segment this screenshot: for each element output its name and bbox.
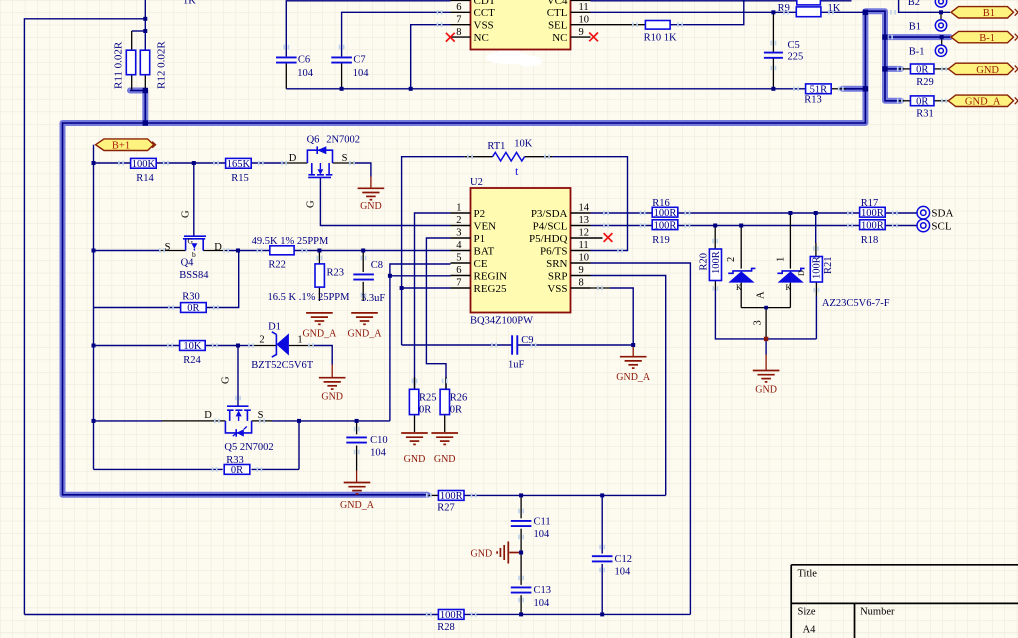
port B-1 — [951, 31, 1014, 42]
svg-text:R10 1K: R10 1K — [644, 33, 677, 44]
svg-text:0R: 0R — [419, 405, 431, 416]
svg-text:C7: C7 — [353, 55, 365, 66]
resistor R31 — [910, 96, 934, 106]
svg-text:RT1: RT1 — [487, 141, 505, 152]
wire R11 top elbow — [132, 30, 146, 32]
svg-text:P6/TS: P6/TS — [540, 245, 568, 257]
svg-text:7: 7 — [456, 14, 461, 25]
ground GND at zeners — [753, 371, 780, 382]
transistor Q5 2N7002 — [227, 405, 249, 407]
svg-text:10: 10 — [579, 14, 590, 25]
wire R20 top lead — [714, 226, 716, 250]
svg-text:100K: 100K — [132, 159, 156, 170]
resistor R28 — [438, 610, 464, 620]
svg-text:S: S — [165, 242, 171, 253]
capacitor C10 — [346, 437, 367, 442]
svg-text:7: 7 — [456, 278, 461, 289]
resistor R10 — [645, 21, 670, 30]
svg-text:165K: 165K — [227, 159, 251, 170]
wire row163 B+1 to R14 R15 Q6 — [94, 162, 131, 164]
svg-text:0R: 0R — [450, 405, 462, 416]
pad SDA — [917, 206, 930, 219]
wire zener common to GND — [765, 339, 767, 355]
resistor R23 — [315, 264, 324, 287]
wire row250 R22 to U2 BAT — [294, 250, 450, 252]
svg-text:C12: C12 — [615, 554, 633, 565]
svg-text:GND: GND — [321, 392, 343, 403]
ground GND at D1 — [319, 378, 346, 389]
wire Q5 gate — [237, 346, 239, 407]
resistor R11 — [126, 50, 135, 74]
svg-text:CCT: CCT — [474, 7, 496, 19]
resistor R22 — [270, 246, 294, 255]
svg-text:2: 2 — [726, 257, 737, 262]
resistor R33 — [224, 465, 250, 475]
ground GND at R25 — [401, 433, 428, 444]
svg-text:R27: R27 — [437, 503, 455, 514]
svg-text:AZ23C5V6-7-F: AZ23C5V6-7-F — [822, 298, 890, 309]
wire B+1 port drop — [93, 145, 95, 163]
wire R21 bottom lead — [815, 282, 817, 296]
wire R26 top black lead — [445, 377, 447, 389]
svg-text:B-1: B-1 — [909, 47, 925, 58]
wire thick B+ bus halo — [130, 91, 145, 124]
svg-text:D: D — [204, 410, 212, 421]
wire row250 S-Q4 — [94, 250, 161, 252]
svg-text:R14: R14 — [136, 173, 154, 184]
svg-text:R22: R22 — [268, 259, 286, 270]
diode D2 zener — [777, 268, 804, 273]
svg-text:R20: R20 — [698, 253, 709, 271]
resistor R18 — [860, 220, 886, 230]
resistor R16 — [652, 207, 678, 217]
wire R9 right to bus — [821, 11, 866, 13]
capacitor C11 — [511, 521, 532, 526]
svg-text:9: 9 — [579, 27, 584, 38]
wire SDA row — [591, 212, 653, 214]
svg-text:R12 0.02R: R12 0.02R — [156, 41, 168, 89]
wire CTL row to R9 — [591, 11, 797, 13]
svg-text:C5: C5 — [788, 40, 800, 51]
wire net88 long horizontal — [286, 88, 806, 90]
op-amp U2 BQ34Z100PW — [471, 188, 571, 313]
wire U2 P1 to R26 — [426, 238, 450, 389]
capacitor C5 — [764, 53, 783, 58]
title block — [791, 565, 1018, 638]
pad SCL — [917, 219, 930, 232]
ground GND at R26 — [431, 433, 458, 444]
svg-text:K: K — [786, 283, 792, 292]
wire R33 row — [94, 468, 223, 470]
svg-text:9: 9 — [579, 265, 584, 276]
svg-text:Title: Title — [798, 569, 818, 580]
svg-text:1uF: 1uF — [508, 360, 525, 371]
ground GND_A at C9 node — [620, 357, 647, 368]
svg-text:CE: CE — [474, 258, 488, 270]
svg-text:0R: 0R — [231, 465, 243, 476]
resistor R25 — [409, 389, 418, 414]
svg-text:P5/HDQ: P5/HDQ — [529, 233, 568, 245]
resistor R21 — [810, 257, 822, 283]
svg-text:P1: P1 — [474, 233, 486, 245]
wire R26 bottom lead — [444, 415, 446, 432]
svg-text:NC: NC — [552, 32, 567, 44]
svg-text:5: 5 — [456, 253, 461, 264]
wire RT1 right to U2 TS — [552, 157, 627, 251]
wire Q6 gate to U2 VEN — [320, 177, 450, 225]
junction dot zener anode — [764, 306, 768, 310]
connection markers — [118, 161, 124, 166]
transistor Q6 2N7002 — [307, 150, 332, 163]
svg-text:G: G — [188, 237, 194, 246]
svg-text:B-1: B-1 — [979, 33, 995, 44]
wire U2 CE elbow — [390, 264, 451, 421]
svg-text:1K: 1K — [183, 0, 196, 7]
svg-text:R24: R24 — [183, 355, 201, 366]
svg-text:C11: C11 — [534, 517, 551, 528]
white blob artifact — [486, 51, 530, 64]
svg-text:2: 2 — [456, 215, 461, 226]
junction dot GND maroon — [764, 337, 768, 341]
svg-text:SRN: SRN — [546, 258, 567, 270]
svg-text:G: G — [306, 200, 317, 208]
svg-text:R28: R28 — [437, 622, 455, 633]
transistor Q4 BSS84 — [184, 235, 206, 237]
svg-text:B+1: B+1 — [112, 140, 130, 151]
wire B1 net — [899, 0, 950, 12]
svg-text:3: 3 — [456, 228, 461, 239]
svg-text:104: 104 — [353, 68, 370, 79]
svg-text:C13: C13 — [534, 585, 552, 596]
wire R24 row — [94, 345, 180, 347]
svg-text:3.3uF: 3.3uF — [361, 293, 385, 304]
wire Q6 source to GND — [333, 162, 356, 164]
svg-text:GND_A: GND_A — [616, 372, 651, 383]
wire Q4 gate vertical — [193, 163, 195, 236]
svg-text:G: G — [180, 210, 191, 218]
svg-text:A: A — [756, 291, 767, 299]
svg-text:104: 104 — [534, 598, 551, 609]
wire C7 bottom lead — [341, 63, 343, 89]
wire R11 R12 top vertical — [144, 0, 146, 50]
capacitor C6 — [276, 57, 297, 62]
svg-text:GND: GND — [755, 385, 777, 396]
wire C11-C13 chain — [520, 495, 522, 518]
svg-text:104: 104 — [370, 448, 387, 459]
wire CCT row / C7 top — [342, 12, 451, 56]
svg-text:P3/SDA: P3/SDA — [531, 208, 568, 220]
svg-text:10K: 10K — [514, 139, 533, 150]
wire left rail vertical — [93, 163, 95, 469]
wire C6 bottom lead — [285, 63, 287, 89]
svg-text:Q5 2N7002: Q5 2N7002 — [224, 442, 273, 453]
wire R25 top black lead — [414, 377, 416, 389]
wire SRP to R27 row — [591, 276, 666, 496]
wire C10 leads — [356, 421, 358, 434]
wire VC4 row to R8 — [591, 0, 797, 2]
capacitor C8 — [353, 274, 374, 279]
wire R20 bottom to A-node rail — [714, 281, 716, 290]
svg-text:16.5 K .1% 25PPM: 16.5 K .1% 25PPM — [268, 292, 351, 303]
ground GND_A at C10 — [344, 483, 371, 494]
pad B2 — [935, 0, 946, 7]
svg-text:Size: Size — [798, 607, 816, 618]
svg-text:10K: 10K — [183, 341, 202, 352]
wire B-1 pad stub — [941, 37, 943, 45]
svg-text:R15: R15 — [231, 173, 249, 184]
svg-text:1: 1 — [456, 203, 461, 214]
wire GND_A stub at C9 node — [632, 345, 634, 357]
resistor R9 — [796, 7, 821, 17]
wire C5 bottom lead — [772, 58, 774, 88]
capacitor C12 — [592, 556, 613, 561]
wire D1 right to GND — [289, 345, 313, 347]
svg-text:1: 1 — [775, 257, 786, 262]
op-amp U1 charger IC (partial) — [471, 0, 571, 50]
wire R12 bottom lead — [144, 75, 146, 91]
wire REG25 row — [402, 287, 451, 289]
wire CDT row / C6 top — [286, 1, 450, 57]
wire SEL row to R10 — [591, 24, 646, 26]
svg-text:11: 11 — [579, 2, 589, 13]
svg-text:8: 8 — [579, 278, 584, 289]
svg-text:SEL: SEL — [548, 20, 568, 32]
capacitor C9 — [512, 335, 517, 354]
svg-text:K: K — [736, 283, 742, 292]
wire left outer vertical — [23, 18, 25, 614]
svg-text:C6: C6 — [298, 55, 310, 66]
partial text top edge — [183, 0, 196, 7]
thermistor RT1 — [493, 152, 525, 161]
svg-text:0R: 0R — [916, 65, 928, 76]
svg-text:SCL: SCL — [931, 220, 951, 232]
pad B1 — [935, 20, 946, 31]
svg-text:A4: A4 — [803, 625, 817, 636]
port GND_A — [948, 95, 1013, 106]
svg-text:BSS84: BSS84 — [179, 270, 209, 281]
junction dots on bus — [143, 88, 148, 93]
svg-text:GND: GND — [434, 454, 456, 465]
svg-text:B1: B1 — [983, 8, 995, 19]
wire R13 right to bus — [831, 88, 846, 90]
svg-text:R33: R33 — [226, 455, 244, 466]
wire RT1 leads — [465, 156, 493, 158]
svg-text:100R: 100R — [440, 491, 463, 502]
wire bottom row to R28 — [24, 614, 438, 616]
svg-text:SDA: SDA — [931, 208, 953, 220]
svg-text:2N7002: 2N7002 — [326, 135, 360, 146]
svg-text:104: 104 — [534, 529, 551, 540]
no-connect X U2 pin12 — [604, 233, 613, 242]
ground GND_A at C8 — [351, 313, 378, 324]
svg-text:6: 6 — [456, 265, 461, 276]
resistor R8 (partial top) — [797, 0, 821, 5]
resistor R24 — [180, 341, 206, 351]
wire R8 right to corner — [820, 0, 851, 2]
resistor R30 — [181, 303, 207, 313]
svg-text:VSS: VSS — [547, 283, 567, 295]
svg-text:14: 14 — [579, 203, 590, 214]
svg-text:D: D — [797, 270, 806, 276]
wire R28 row right — [464, 613, 690, 615]
svg-text:0R: 0R — [916, 96, 928, 107]
wire SRN to R28 row — [591, 263, 691, 614]
diode D3 zener — [728, 268, 755, 273]
diode D1 BZT52C5V6T — [272, 332, 277, 357]
svg-text:D1: D1 — [268, 322, 281, 333]
svg-text:C10: C10 — [370, 435, 388, 446]
svg-text:100R: 100R — [812, 256, 823, 279]
svg-text:B1: B1 — [909, 21, 921, 32]
wire row250 Q4-D to R22 — [203, 250, 226, 252]
svg-text:49.5K 1% 25PPM: 49.5K 1% 25PPM — [252, 236, 329, 247]
resistor R26 — [440, 389, 449, 414]
svg-text:R31: R31 — [916, 109, 934, 120]
svg-text:104: 104 — [297, 68, 314, 79]
svg-text:104: 104 — [615, 567, 632, 578]
wire R23 leads — [318, 251, 320, 264]
svg-text:R23: R23 — [327, 268, 345, 279]
wire B1 pad stub — [940, 12, 942, 19]
wire R21 top lead — [815, 213, 817, 243]
svg-text:13: 13 — [579, 215, 590, 226]
wire D2 leads — [789, 213, 791, 269]
port GND — [948, 63, 1013, 74]
wire C9 row — [402, 344, 512, 346]
svg-text:R13: R13 — [804, 95, 822, 106]
svg-text:REGIN: REGIN — [474, 270, 508, 282]
capacitor C13 — [511, 587, 532, 592]
svg-text:R21: R21 — [823, 256, 834, 274]
svg-text:SRP: SRP — [548, 270, 568, 282]
svg-text:GND: GND — [404, 454, 426, 465]
svg-text:0R: 0R — [187, 303, 199, 314]
svg-text:10: 10 — [579, 253, 590, 264]
svg-text:R26: R26 — [450, 393, 468, 404]
svg-text:R30: R30 — [182, 292, 200, 303]
svg-text:VEN: VEN — [474, 220, 497, 232]
wire D1 left lead — [238, 345, 252, 347]
svg-text:REG25: REG25 — [474, 283, 508, 295]
svg-text:BQ34Z100PW: BQ34Z100PW — [470, 315, 533, 326]
junction dots — [143, 17, 147, 21]
svg-text:11: 11 — [579, 240, 589, 251]
svg-text:D: D — [289, 153, 297, 164]
svg-text:U2: U2 — [470, 177, 483, 188]
svg-text:GND_A: GND_A — [965, 97, 1001, 108]
capacitor C7 — [331, 57, 352, 62]
svg-text:3: 3 — [753, 320, 764, 325]
svg-text:GND_A: GND_A — [302, 329, 337, 340]
svg-text:1: 1 — [297, 335, 302, 346]
resistor R27 — [438, 491, 464, 501]
wire R29 leads — [899, 68, 911, 70]
wire Q5 source row — [252, 420, 272, 422]
wire R30 loop — [206, 251, 238, 308]
svg-text:R25: R25 — [419, 393, 437, 404]
ground GND_A at R23 — [306, 313, 333, 324]
svg-text:8: 8 — [456, 27, 461, 38]
svg-text:R18: R18 — [861, 235, 879, 246]
svg-text:P4/SCL: P4/SCL — [533, 220, 568, 232]
svg-text:B2: B2 — [908, 0, 920, 8]
svg-text:CTL: CTL — [547, 7, 568, 19]
wire U1 VSS down to net88 — [411, 25, 451, 89]
pad B-1 — [935, 45, 946, 56]
svg-text:P2: P2 — [474, 208, 486, 220]
svg-text:R19: R19 — [652, 235, 670, 246]
resistor R15 — [226, 158, 252, 168]
wire R27 row right — [464, 494, 666, 496]
svg-text:R16: R16 — [652, 198, 670, 209]
svg-text:Number: Number — [860, 607, 895, 618]
svg-text:NC: NC — [474, 32, 489, 44]
wire C8 leads — [362, 251, 364, 273]
wire C5 top lead — [772, 12, 774, 52]
wire U2 REGIN row — [390, 275, 451, 277]
resistor R20 — [709, 249, 721, 281]
wire R11 bottom lead — [131, 75, 133, 90]
svg-text:GND: GND — [976, 65, 999, 76]
wire top-left horizontal — [24, 18, 145, 20]
svg-text:C8: C8 — [371, 260, 383, 271]
resistor R14 — [131, 158, 157, 168]
resistor R19 — [652, 220, 678, 230]
svg-text:VSS: VSS — [474, 20, 494, 32]
svg-text:GND: GND — [471, 549, 493, 560]
svg-text:R11 0.02R: R11 0.02R — [113, 41, 125, 89]
resistor R29 — [910, 64, 934, 74]
svg-text:4: 4 — [456, 240, 462, 251]
svg-text:100R: 100R — [711, 251, 722, 274]
svg-text:GND_A: GND_A — [348, 329, 383, 340]
svg-text:GND_A: GND_A — [340, 500, 375, 511]
svg-text:R29: R29 — [916, 77, 934, 88]
svg-text:225: 225 — [788, 52, 804, 63]
svg-text:6: 6 — [456, 2, 461, 13]
svg-text:GND: GND — [360, 201, 382, 212]
svg-text:100R: 100R — [861, 220, 884, 231]
wire SCL row — [591, 225, 653, 227]
svg-text:100R: 100R — [861, 208, 884, 219]
svg-text:Q6: Q6 — [307, 135, 320, 146]
resistor R13 — [806, 84, 832, 94]
svg-text:S: S — [342, 153, 348, 164]
svg-text:G: G — [220, 376, 231, 384]
wire thick B+ bus core — [130, 91, 145, 124]
svg-text:BZT52C5V6T: BZT52C5V6T — [251, 360, 313, 371]
wire zener anode bar — [741, 307, 790, 309]
no-connect X U1 pin8 — [446, 33, 455, 42]
ground GND at Q6 — [358, 188, 385, 199]
wire RT1 net left/vertical — [402, 157, 465, 345]
svg-text:100R: 100R — [654, 220, 677, 231]
svg-text:BAT: BAT — [474, 245, 495, 257]
svg-text:R17: R17 — [861, 198, 879, 209]
svg-text:100R: 100R — [654, 208, 677, 219]
resistor R17 — [860, 207, 886, 217]
wire Q5 drain row — [94, 420, 163, 422]
wire D3 leads — [740, 226, 742, 269]
wire R10 right up — [670, 0, 744, 25]
port B1 — [951, 7, 1014, 18]
ground GND rotated at C11-C13 — [497, 542, 521, 564]
svg-text:2: 2 — [259, 335, 264, 346]
resistor R12 — [140, 50, 149, 74]
wire C12 leads — [601, 495, 603, 553]
no-connect X U1 pin9 — [589, 33, 598, 42]
wire R27 left lead — [429, 494, 439, 496]
